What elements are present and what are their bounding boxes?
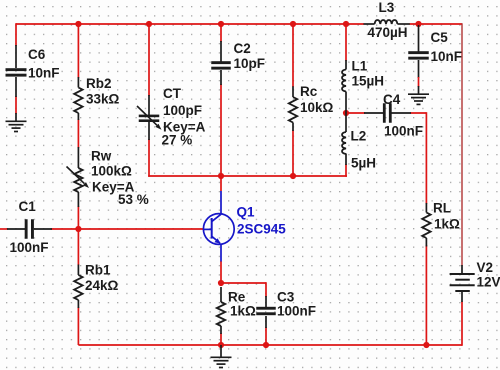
svg-text:100nF: 100nF [10, 240, 49, 255]
wire C2 top [220, 24, 222, 42]
value Re 1k [230, 304, 256, 319]
node RL/bottom rail [423, 342, 429, 348]
wire Rw to Rb1 [77, 206, 79, 266]
resistor Rb1 leads [77, 265, 79, 309]
label C5 [431, 30, 449, 45]
wire emitter to C3 [221, 282, 266, 284]
transistor Q1 base bar [211, 218, 213, 239]
resistor Rc leads [292, 86, 294, 131]
svg-text:53 %: 53 % [118, 192, 149, 207]
inductor L3 [375, 20, 398, 24]
wire C6 to ground [15, 96, 17, 114]
node emitter/Re [218, 280, 224, 286]
svg-text:10kΩ: 10kΩ [300, 100, 334, 115]
capacitor C2 [211, 61, 231, 69]
inductor L2 leads [345, 113, 347, 165]
inductor L1 [342, 70, 346, 92]
capacitor C4 leads [364, 112, 411, 114]
svg-text:Rb1: Rb1 [85, 263, 111, 278]
value C5 10nF [431, 49, 463, 64]
resistor RL [422, 213, 430, 239]
resistor Rb2 [74, 88, 82, 114]
ground for Re [211, 345, 232, 368]
label Rw [91, 149, 112, 164]
wire V2 bottom to rail [461, 302, 463, 346]
svg-text:1kΩ: 1kΩ [434, 217, 460, 232]
svg-text:Re: Re [228, 290, 246, 305]
node Rb2/top rail [75, 21, 81, 27]
wire Rc top [292, 24, 294, 87]
svg-text:C3: C3 [277, 290, 295, 305]
capacitor CT [139, 115, 160, 122]
wire C5 to ground [418, 77, 420, 87]
svg-text:100nF: 100nF [384, 124, 423, 139]
label Rb2 [86, 76, 112, 91]
resistor RL leads [425, 203, 427, 247]
svg-text:100kΩ: 100kΩ [91, 164, 132, 179]
capacitor C5 leads [418, 25, 420, 78]
svg-text:C2: C2 [234, 41, 251, 56]
ground for C5 [408, 86, 429, 104]
resistor Rw [74, 168, 82, 192]
svg-text:2SC945: 2SC945 [237, 222, 286, 237]
wire top rail left [16, 23, 364, 25]
capacitor C4 [383, 103, 392, 123]
value V2 12V [477, 274, 500, 289]
svg-text:Rc: Rc [300, 84, 318, 99]
label L2 [351, 128, 367, 143]
label L3 [379, 0, 395, 15]
value Q1 2SC945 [237, 222, 286, 237]
svg-text:15µH: 15µH [352, 74, 385, 89]
value C1 100nF [10, 240, 49, 255]
wire Re bottom [220, 333, 222, 346]
svg-text:L1: L1 [352, 59, 368, 74]
capacitor C1 leads [7, 228, 52, 230]
value Rb2 33k [86, 92, 120, 107]
arrow of CT [137, 106, 162, 130]
svg-text:Rb2: Rb2 [86, 76, 112, 91]
key label CT [163, 119, 206, 134]
ground for C6 [6, 113, 27, 132]
wire Q1 emitter red [220, 261, 222, 283]
capacitor C6 [6, 68, 27, 76]
label C2 [234, 41, 251, 56]
node C5/top rail [415, 21, 421, 27]
capacitor CT leads [148, 95, 150, 140]
resistor Rb2 leads [77, 77, 79, 120]
wire Rb2 top [77, 24, 79, 78]
label C4 [383, 92, 401, 107]
node L1-L2-C4 [343, 110, 349, 116]
resistor Rc [289, 97, 297, 123]
arrow of Rw [67, 167, 90, 189]
svg-text:27 %: 27 % [162, 132, 193, 147]
value C6 10nF [28, 66, 60, 81]
svg-text:10nF: 10nF [431, 49, 463, 64]
wire C4 right to corner [410, 112, 426, 114]
value L1 15uH [352, 74, 385, 89]
svg-text:1kΩ: 1kΩ [230, 304, 256, 319]
label V2 [477, 260, 494, 275]
wire C1 to Q1 base [51, 228, 204, 230]
label CT [163, 86, 182, 101]
label C1 [19, 199, 37, 214]
capacitor C2 leads [220, 41, 222, 85]
capacitor C3 leads [265, 296, 267, 328]
key label Rw [92, 180, 135, 195]
svg-text:Rw: Rw [91, 149, 112, 164]
inductor L2 [342, 132, 346, 154]
svg-text:12V: 12V [477, 274, 500, 289]
value Rc 10k [300, 100, 334, 115]
value RL 1k [434, 217, 460, 232]
wire Rb2 to Rw [77, 119, 79, 148]
svg-text:C4: C4 [383, 92, 401, 107]
label Q1 [237, 204, 256, 219]
value L3 470uH [368, 25, 408, 40]
svg-text:100pF: 100pF [163, 103, 202, 118]
svg-text:10pF: 10pF [234, 56, 266, 71]
capacitor C3 [256, 307, 276, 315]
capacitor C6 leads [15, 45, 17, 97]
wire CT bottom [148, 139, 150, 177]
svg-text:C5: C5 [431, 30, 449, 45]
wire Q1 collector red [220, 176, 222, 191]
value L2 5uH [351, 156, 376, 171]
svg-text:L2: L2 [351, 128, 367, 143]
value C3 100nF [277, 304, 316, 319]
resistor Re leads [220, 287, 222, 334]
svg-text:C6: C6 [28, 47, 46, 62]
percent Rw [118, 192, 149, 207]
capacitor C5 [408, 51, 429, 59]
svg-text:C1: C1 [19, 199, 37, 214]
value C4 100nF [384, 124, 423, 139]
wire C3 top drop [265, 282, 267, 297]
value C2 10pF [234, 56, 266, 71]
wire L2 bottom [345, 164, 347, 177]
label RL [433, 201, 451, 216]
resistor Rb1 [74, 275, 82, 300]
label Rc [300, 84, 318, 99]
value Rb1 24k [85, 278, 119, 293]
label Rb1 [85, 263, 111, 278]
svg-text:RL: RL [433, 201, 451, 216]
inductor L1 leads [345, 60, 347, 113]
wire right rail (to V2) [461, 23, 463, 266]
transistor Q1 circle [203, 214, 234, 245]
transistor Q1 base lead [203, 228, 211, 230]
node CT/top rail [146, 21, 152, 27]
wire top rail right [410, 23, 463, 25]
wire Rc bottom [292, 130, 294, 176]
wire Rb1 bottom [77, 307, 79, 345]
wire bottom rail [78, 344, 462, 346]
node C3/bottom rail [263, 342, 269, 348]
node C1/bias divider [75, 226, 81, 232]
wire C1 left stub [0, 228, 8, 230]
wire RL bottom [425, 245, 427, 345]
node collector/mid rail [218, 173, 224, 179]
node Rc/mid rail [290, 173, 296, 179]
svg-text:24kΩ: 24kΩ [85, 278, 119, 293]
wire mid rail [148, 175, 347, 177]
wire C6 top drop [15, 23, 17, 46]
svg-text:CT: CT [163, 86, 182, 101]
source V2 leads [461, 265, 463, 302]
svg-text:Q1: Q1 [237, 204, 256, 219]
svg-text:5µH: 5µH [351, 156, 376, 171]
value Rw 100k [91, 164, 132, 179]
resistor Re [217, 302, 225, 326]
transistor Q1 collector [212, 191, 222, 222]
wire C3 bottom [265, 327, 267, 345]
wire CT top [148, 24, 150, 96]
svg-text:L3: L3 [379, 0, 395, 15]
label L1 [352, 59, 368, 74]
svg-text:100nF: 100nF [277, 304, 316, 319]
node Re/bottom rail [218, 342, 224, 348]
label C3 [277, 290, 295, 305]
inductor L3 leads [364, 23, 410, 25]
wire RL top drop [425, 112, 427, 204]
percent CT [162, 132, 193, 147]
node L1/top rail [343, 21, 349, 27]
svg-text:V2: V2 [477, 260, 494, 275]
wire C2 bottom [220, 84, 222, 176]
capacitor C1 [25, 219, 34, 239]
resistor Rw leads [77, 147, 79, 207]
node Rc/top rail [290, 21, 296, 27]
wire C4 left [346, 112, 365, 114]
source V2 battery [450, 274, 475, 291]
svg-text:10nF: 10nF [28, 66, 60, 81]
svg-text:33kΩ: 33kΩ [86, 92, 120, 107]
label C6 [28, 47, 46, 62]
value CT 100pF [163, 103, 202, 118]
wire L1 top [345, 24, 347, 61]
svg-text:470µH: 470µH [368, 25, 408, 40]
transistor Q1 emitter [212, 236, 221, 261]
label Re [228, 290, 246, 305]
node C2/top rail [218, 21, 224, 27]
